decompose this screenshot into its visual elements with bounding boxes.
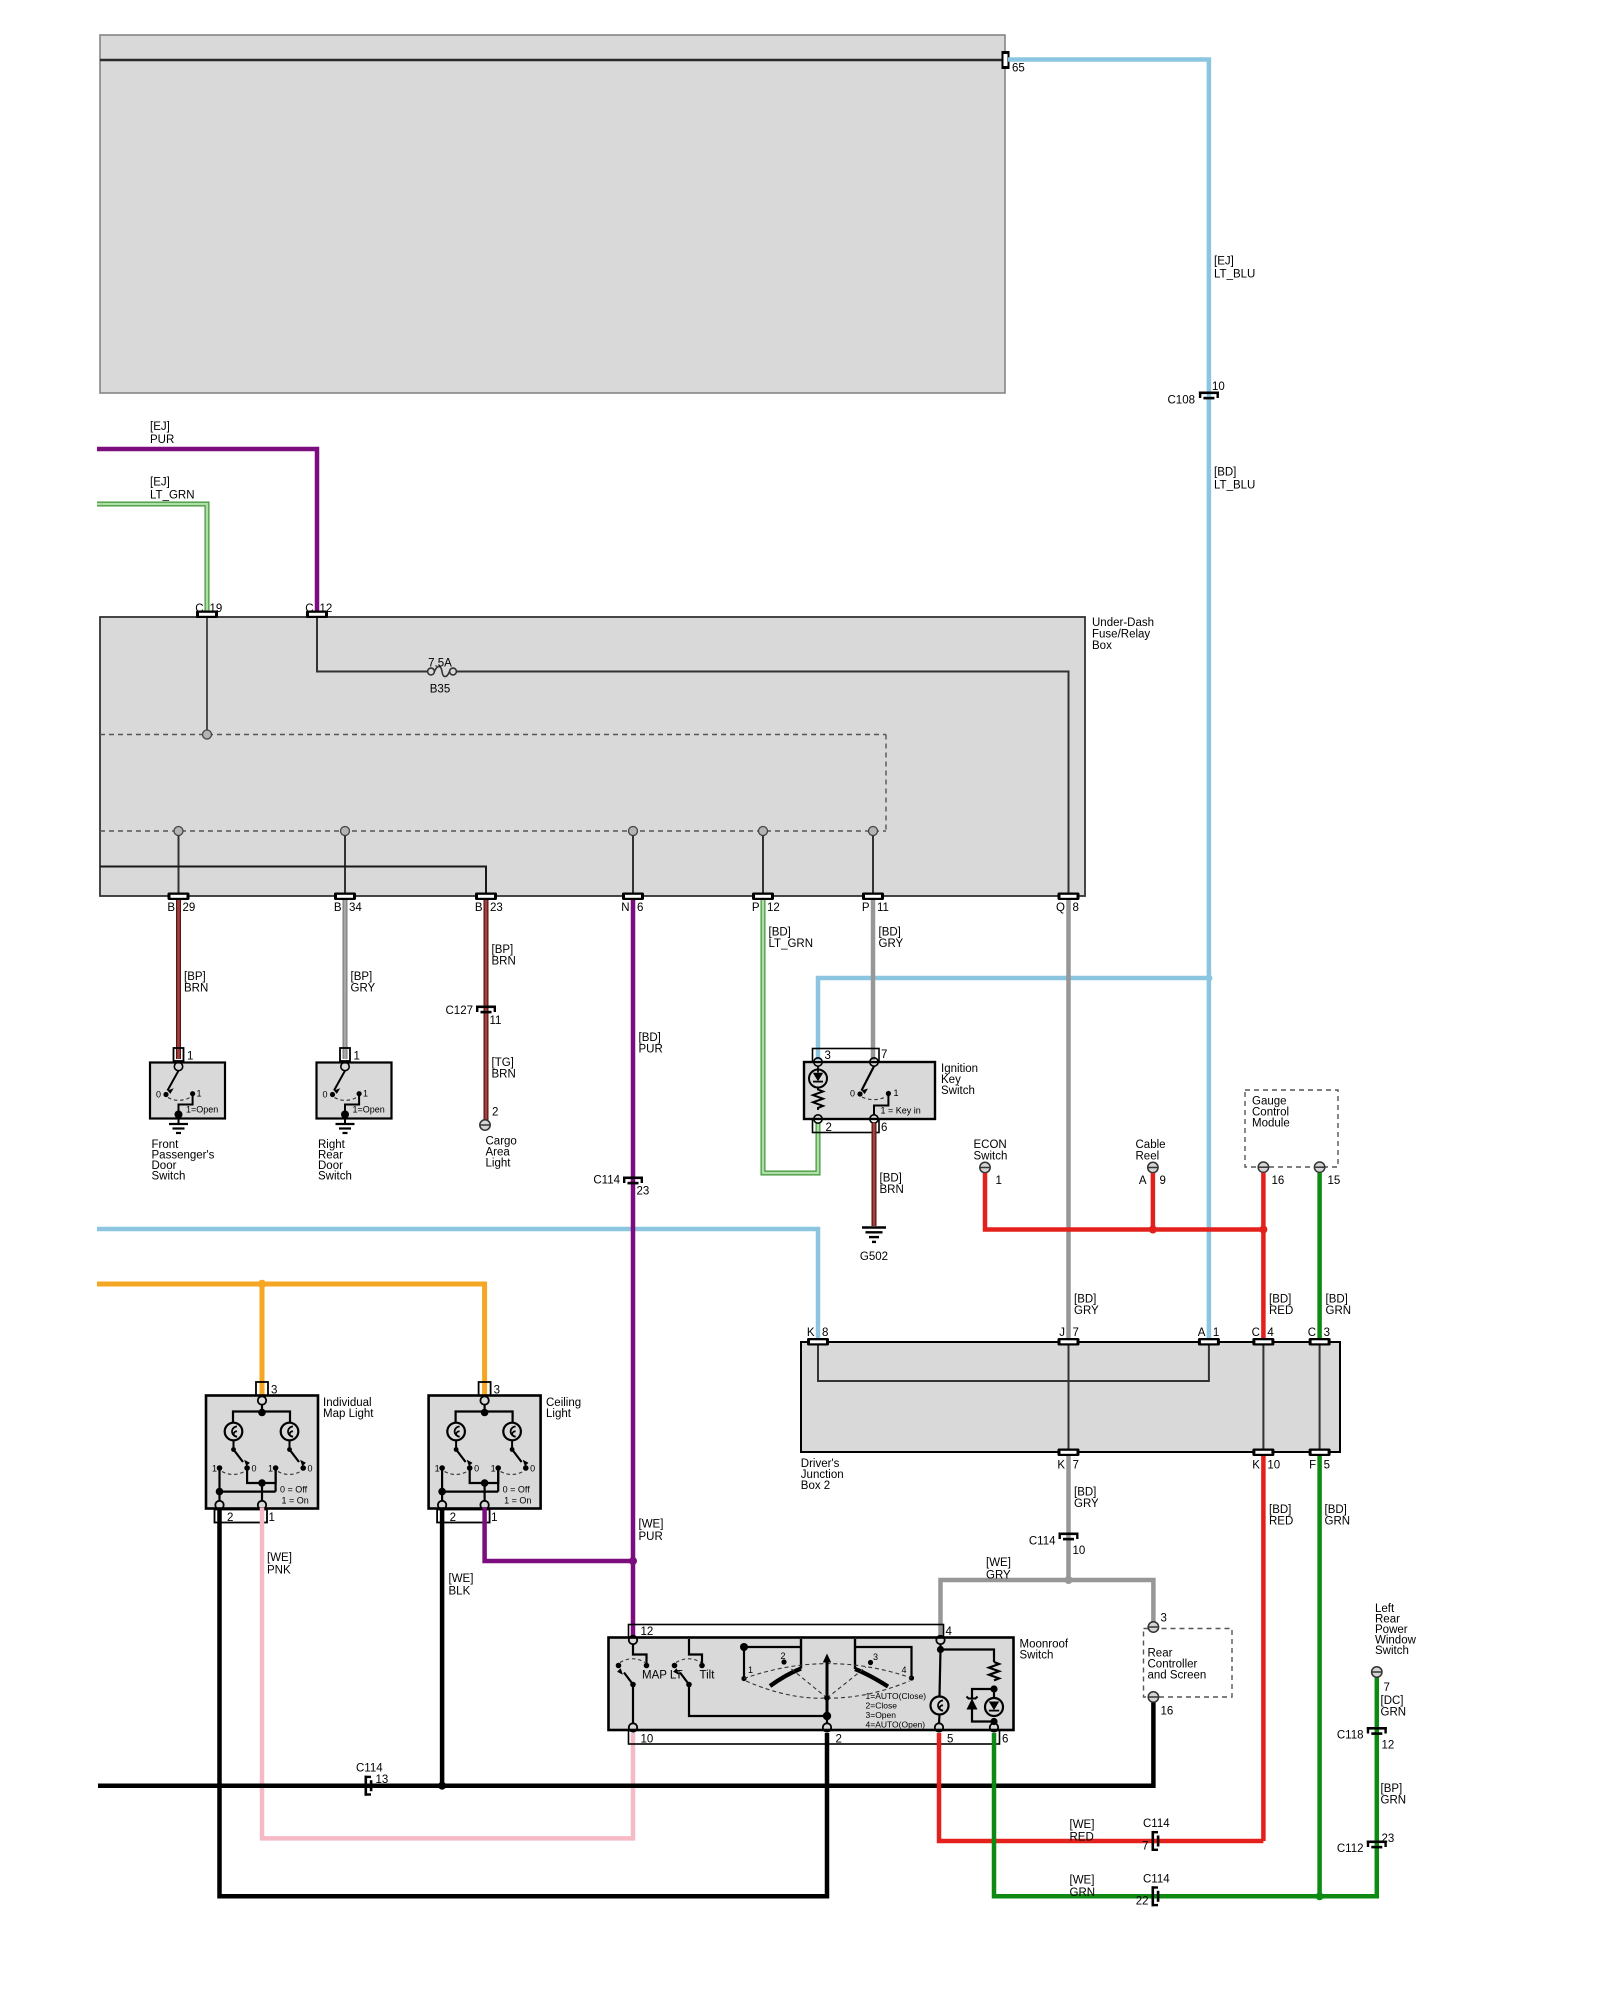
- svg-text:C114: C114: [356, 1763, 383, 1775]
- wire internal C3 to F5: [1319, 1345, 1321, 1449]
- connector C108 pin 10: [1199, 392, 1219, 400]
- svg-text:23: 23: [637, 1186, 650, 1198]
- terminal rear controller pin 3: [1148, 1622, 1158, 1632]
- svg-text:[BD]: [BD]: [1214, 467, 1236, 479]
- svg-text:[WE]: [WE]: [1070, 1819, 1095, 1831]
- svg-text:7: 7: [1073, 1460, 1079, 1472]
- node black junction (ceiling light): [438, 1782, 446, 1790]
- node on upper bus (C19): [203, 730, 212, 739]
- svg-text:0: 0: [322, 1090, 327, 1100]
- svg-text:C114: C114: [593, 1175, 620, 1187]
- svg-text:[WE]: [WE]: [639, 1519, 664, 1531]
- switch lever left: [454, 1447, 459, 1452]
- dashed internal bus lower: [100, 830, 886, 832]
- svg-text:1: 1: [269, 1512, 275, 1524]
- connector K 10 (bottom): [1252, 1449, 1274, 1457]
- svg-text:22: 22: [1136, 1896, 1149, 1908]
- node red junction at gauge lead: [1259, 1226, 1267, 1234]
- svg-text:7: 7: [1073, 1327, 1079, 1339]
- connector C114 pin 13: [365, 1776, 373, 1796]
- Gauge Control Module (dashed): [1245, 1090, 1338, 1167]
- svg-text:PUR: PUR: [639, 1044, 663, 1056]
- svg-text:[BD]: [BD]: [1325, 1504, 1347, 1516]
- wire ORN feed to lights: [97, 1284, 485, 1396]
- node purple junction: [629, 1557, 637, 1565]
- svg-text:Fuse/Relay: Fuse/Relay: [1092, 629, 1150, 641]
- svg-text:Light: Light: [486, 1158, 512, 1170]
- svg-text:10: 10: [1267, 1460, 1280, 1472]
- svg-text:1 = On: 1 = On: [282, 1496, 309, 1506]
- svg-text:Map Light: Map Light: [323, 1408, 374, 1420]
- svg-text:A: A: [1198, 1327, 1206, 1339]
- lower connections: [470, 1470, 499, 1483]
- svg-text:Under-Dash: Under-Dash: [1092, 617, 1154, 629]
- svg-text:3: 3: [271, 1385, 277, 1397]
- resistor inside ignition switch: [813, 1088, 823, 1110]
- connector C 4: [1252, 1338, 1274, 1346]
- connector C 3: [1309, 1338, 1331, 1346]
- bulb 2 of ceiling light: [503, 1423, 521, 1441]
- wire [WE] GRY distribution: [941, 1580, 1154, 1637]
- svg-text:Module: Module: [1252, 1118, 1290, 1130]
- svg-text:G502: G502: [860, 1251, 888, 1263]
- wire cable reel red lead: [1151, 1173, 1156, 1230]
- svg-text:K: K: [1252, 1460, 1260, 1472]
- Front Passenger's Door Switch: [150, 1048, 225, 1183]
- svg-text:1: 1: [1213, 1327, 1219, 1339]
- svg-text:3: 3: [1324, 1327, 1330, 1339]
- svg-text:[BD]: [BD]: [880, 1173, 902, 1185]
- selector arm: [826, 1662, 829, 1716]
- svg-text:1: 1: [894, 1088, 899, 1098]
- svg-text:2: 2: [227, 1512, 233, 1524]
- svg-text:P: P: [862, 902, 870, 914]
- svg-text:GRN: GRN: [1381, 1707, 1407, 1719]
- svg-text:1=Open: 1=Open: [186, 1105, 218, 1115]
- terminal gauge module pin 16: [1258, 1162, 1268, 1172]
- svg-text:K: K: [1057, 1460, 1065, 1472]
- wire LT_BLU lower (left edge to K8): [97, 1229, 818, 1342]
- wire [EJ] LT_GRN to C19: [97, 504, 207, 613]
- svg-text:GRN: GRN: [1326, 1305, 1352, 1317]
- svg-text:3: 3: [1161, 1613, 1167, 1625]
- svg-text:6: 6: [881, 1122, 887, 1134]
- connector C114 pin 7: [1152, 1831, 1160, 1851]
- svg-text:K: K: [807, 1327, 815, 1339]
- switch lever right: [510, 1447, 515, 1452]
- svg-text:B: B: [334, 902, 342, 914]
- wire ceiling light pin2 black to rear controller net: [440, 1508, 445, 1786]
- svg-text:23: 23: [490, 902, 503, 914]
- wire [BD] RED from ECON switch: [985, 1173, 1263, 1230]
- svg-text:65: 65: [1012, 63, 1025, 75]
- svg-text:1: 1: [748, 1665, 753, 1675]
- connector C 19: [196, 611, 218, 619]
- svg-text:3: 3: [825, 1050, 831, 1062]
- motor of moonroof switch: [937, 1646, 944, 1653]
- svg-text:2: 2: [450, 1512, 456, 1524]
- key switch lever: [862, 1066, 875, 1090]
- ground G502: [862, 1225, 874, 1227]
- svg-text:Switch: Switch: [1375, 1645, 1409, 1657]
- wire LT_BLU branch to ignition key switch pin 3: [818, 978, 1209, 1060]
- connector K 7 (bottom): [1058, 1449, 1080, 1457]
- wire internal K8 to A1: [818, 1345, 1209, 1381]
- svg-text:C127: C127: [446, 1005, 474, 1017]
- svg-text:8: 8: [822, 1327, 828, 1339]
- wire: C12 internal lead to fuse: [317, 618, 428, 672]
- LED (key-in illumination): [809, 1070, 827, 1088]
- node green junction (F5): [1316, 1892, 1324, 1900]
- wire black: rear controller pin16 ground net: [98, 1703, 1153, 1786]
- wire [EJ] PUR to C12: [97, 449, 317, 613]
- connector C 12: [306, 611, 328, 619]
- svg-text:[EJ]: [EJ]: [150, 477, 170, 489]
- dashed internal bus vertical: [885, 735, 887, 832]
- wire ORN branch to map light: [260, 1284, 265, 1396]
- wire [EJ]/[BD] LT_BLU from pin 65 down to A1: [1008, 60, 1209, 1343]
- svg-text:and Screen: and Screen: [1148, 1670, 1207, 1682]
- Ceiling Light: [429, 1382, 582, 1524]
- wire internal J7 to K7: [1068, 1345, 1070, 1449]
- svg-text:0 = Off: 0 = Off: [280, 1485, 308, 1495]
- svg-text:0 = Off: 0 = Off: [503, 1485, 531, 1495]
- svg-text:B: B: [167, 902, 175, 914]
- wire ignition pin 6 [BD] BRN to G502: [872, 1123, 877, 1226]
- svg-text:RED: RED: [1269, 1516, 1293, 1528]
- illumination branch: resistor: [941, 1650, 995, 1663]
- Individual Map Light: [206, 1382, 374, 1524]
- svg-text:Switch: Switch: [1020, 1650, 1054, 1662]
- svg-text:Box 2: Box 2: [801, 1480, 830, 1492]
- svg-text:3: 3: [873, 1652, 878, 1662]
- svg-text:[BD]: [BD]: [1269, 1504, 1291, 1516]
- svg-text:F: F: [1309, 1460, 1316, 1472]
- svg-text:BRN: BRN: [880, 1184, 904, 1196]
- svg-text:C: C: [1308, 1327, 1316, 1339]
- wire P12 [BD] LT_GRN to ignition pin 2: [763, 900, 818, 1173]
- Tilt switch: [689, 1639, 702, 1663]
- switch lever right: [287, 1447, 292, 1452]
- svg-text:29: 29: [183, 902, 196, 914]
- svg-text:4=AUTO(Open): 4=AUTO(Open): [866, 1720, 926, 1730]
- svg-text:4: 4: [946, 1626, 953, 1638]
- svg-text:P: P: [752, 902, 760, 914]
- wire: fuse output to Q8: [456, 672, 1068, 894]
- svg-text:7.5A: 7.5A: [428, 658, 452, 670]
- svg-text:11: 11: [877, 902, 889, 914]
- wire: node to P12: [762, 836, 764, 894]
- svg-text:[BD]: [BD]: [1074, 1294, 1096, 1306]
- svg-text:B: B: [475, 902, 483, 914]
- node: LT_BLU tee to ignition key switch: [1205, 975, 1212, 982]
- svg-text:C: C: [305, 603, 313, 615]
- wire F5 [BD] GRN down: [1317, 1456, 1322, 1896]
- svg-text:0: 0: [252, 1464, 257, 1474]
- svg-text:GRY: GRY: [986, 1570, 1011, 1582]
- svg-text:GRY: GRY: [879, 938, 904, 950]
- svg-text:2=Close: 2=Close: [866, 1701, 898, 1711]
- svg-text:A: A: [1139, 1175, 1147, 1187]
- node P12: [759, 827, 768, 836]
- wire: C19 internal lead: [206, 618, 208, 731]
- svg-text:5: 5: [947, 1734, 953, 1746]
- svg-text:0: 0: [308, 1464, 313, 1474]
- svg-text:Switch: Switch: [974, 1151, 1008, 1163]
- svg-text:Switch: Switch: [318, 1171, 352, 1183]
- svg-text:1: 1: [197, 1089, 202, 1099]
- svg-text:BLK: BLK: [449, 1586, 471, 1598]
- svg-text:C112: C112: [1337, 1843, 1364, 1855]
- svg-text:[WE]: [WE]: [267, 1552, 292, 1564]
- zener diode: [972, 1689, 994, 1698]
- svg-text:3: 3: [494, 1385, 500, 1397]
- svg-text:[BP]: [BP]: [184, 971, 206, 983]
- terminal: Cargo Area Light pin 2: [480, 1120, 490, 1130]
- svg-text:PNK: PNK: [267, 1565, 291, 1577]
- svg-text:C114: C114: [1143, 1818, 1170, 1830]
- svg-text:6: 6: [1002, 1734, 1008, 1746]
- fuse B35 7.5A: [428, 668, 435, 675]
- svg-text:Box: Box: [1092, 640, 1112, 652]
- terminal ECON switch pin 1: [980, 1162, 990, 1172]
- wire B29 [BP] BRN: [176, 900, 181, 1059]
- wire gauge pin16 [BD] RED down to C4: [1261, 1173, 1266, 1342]
- lower connections: [247, 1470, 276, 1483]
- svg-text:12: 12: [1382, 1740, 1395, 1752]
- connector C114 pin 10: [1059, 1533, 1079, 1541]
- svg-text:1: 1: [212, 1464, 217, 1474]
- svg-text:[BD]: [BD]: [879, 927, 901, 939]
- svg-text:3=Open: 3=Open: [866, 1710, 897, 1720]
- wire: internal bus line of upper module: [100, 59, 1005, 62]
- wire: node to P11: [872, 836, 874, 894]
- svg-text:J: J: [1059, 1327, 1065, 1339]
- svg-text:GRN: GRN: [1070, 1887, 1096, 1899]
- wire: node to B29: [178, 836, 180, 894]
- svg-text:[EJ]: [EJ]: [1214, 256, 1234, 268]
- LED indicator: [993, 1689, 995, 1698]
- svg-text:10: 10: [641, 1734, 654, 1746]
- Ignition Key Switch: [804, 1049, 978, 1135]
- svg-text:N: N: [621, 902, 629, 914]
- svg-text:1: 1: [354, 1051, 360, 1063]
- connector B 29: [168, 893, 190, 901]
- svg-text:GRN: GRN: [1381, 1795, 1407, 1807]
- svg-text:2: 2: [492, 1107, 498, 1119]
- svg-text:C108: C108: [1168, 395, 1196, 407]
- svg-text:11: 11: [490, 1015, 502, 1027]
- node red junction at cable reel: [1149, 1226, 1157, 1234]
- node B34: [341, 827, 350, 836]
- terminal cable reel A 9: [1148, 1162, 1158, 1172]
- wire [WE] PNK map light pin1 to moonroof pin10: [262, 1508, 633, 1839]
- bulb 1 of ceiling light: [447, 1423, 465, 1441]
- wire N6 [BD] PUR down to moonroof pin 12: [631, 900, 636, 1637]
- wire: node to N6: [632, 836, 634, 894]
- wire gauge pin15 [BD] GRN down to C3: [1317, 1173, 1322, 1342]
- connector P 12: [752, 893, 774, 901]
- svg-text:1 = On: 1 = On: [504, 1496, 531, 1506]
- svg-text:2: 2: [781, 1651, 786, 1661]
- svg-text:6: 6: [637, 902, 643, 914]
- svg-text:[BD]: [BD]: [1326, 1294, 1348, 1306]
- svg-text:0: 0: [156, 1090, 161, 1100]
- connector C118 pin 12: [1367, 1727, 1387, 1735]
- Rear Controller and Screen (dashed): [1144, 1629, 1233, 1698]
- svg-text:1: 1: [435, 1464, 440, 1474]
- svg-text:1: 1: [268, 1464, 273, 1474]
- wire [WE] GRN moonroof pin6 to window switch: [994, 1677, 1377, 1896]
- svg-text:10: 10: [1073, 1545, 1086, 1557]
- connector P 11: [862, 893, 884, 901]
- terminal rear controller pin 16: [1148, 1692, 1158, 1702]
- svg-text:19: 19: [210, 603, 223, 615]
- svg-text:23: 23: [1382, 1833, 1395, 1845]
- svg-text:34: 34: [349, 902, 362, 914]
- bulb 2 of map light: [281, 1423, 299, 1441]
- svg-text:12: 12: [641, 1626, 654, 1638]
- wire [WE] RED moonroof pin5 to K10 red: [939, 1733, 1263, 1841]
- svg-text:[BD]: [BD]: [769, 927, 791, 939]
- svg-text:BRN: BRN: [184, 983, 208, 995]
- svg-text:8: 8: [1073, 902, 1079, 914]
- rotary selector of moonroof switch: [740, 1643, 748, 1651]
- MAP LT switch: [633, 1644, 647, 1663]
- wire Q8 [BD] GRY to J7: [1066, 900, 1071, 1342]
- svg-text:GRN: GRN: [1325, 1516, 1351, 1528]
- terminal window switch pin 7: [1372, 1667, 1382, 1677]
- connector J 7: [1058, 1338, 1080, 1346]
- svg-text:0: 0: [530, 1464, 535, 1474]
- Driver's Junction Box 2: [801, 1342, 1340, 1452]
- svg-text:[BD]: [BD]: [1269, 1294, 1291, 1306]
- svg-text:[BP]: [BP]: [492, 944, 514, 956]
- connector N 6: [622, 893, 644, 901]
- node N6: [629, 827, 638, 836]
- Right Rear Door Switch: [317, 1048, 392, 1183]
- node orange junction: [258, 1280, 266, 1288]
- svg-text:Cable: Cable: [1136, 1139, 1166, 1151]
- wire: internal lead to B23: [100, 867, 486, 894]
- svg-text:7: 7: [1384, 1682, 1390, 1694]
- svg-text:4: 4: [1267, 1327, 1274, 1339]
- svg-text:12: 12: [320, 603, 333, 615]
- node B29: [174, 827, 183, 836]
- svg-text:LT_BLU: LT_BLU: [1214, 480, 1255, 492]
- svg-text:4: 4: [902, 1665, 907, 1675]
- svg-text:1: 1: [491, 1464, 496, 1474]
- svg-text:C: C: [1252, 1327, 1260, 1339]
- svg-text:BRN: BRN: [492, 1069, 516, 1081]
- svg-text:Reel: Reel: [1136, 1151, 1160, 1163]
- node gray junction: [1065, 1576, 1073, 1584]
- switch lever left: [231, 1447, 236, 1452]
- svg-text:16: 16: [1161, 1706, 1174, 1718]
- svg-text:Q: Q: [1056, 902, 1065, 914]
- svg-text:[WE]: [WE]: [449, 1573, 474, 1585]
- svg-text:1: 1: [187, 1051, 193, 1063]
- svg-text:Switch: Switch: [152, 1171, 186, 1183]
- svg-text:Light: Light: [546, 1408, 572, 1420]
- svg-text:2: 2: [826, 1122, 832, 1134]
- svg-text:ECON: ECON: [974, 1139, 1007, 1151]
- dashed internal bus upper: [100, 734, 886, 736]
- svg-text:PUR: PUR: [639, 1531, 663, 1543]
- svg-text:[BP]: [BP]: [1381, 1783, 1403, 1795]
- svg-text:RED: RED: [1269, 1305, 1293, 1317]
- svg-text:1=Open: 1=Open: [353, 1105, 385, 1115]
- wire B23 [BP] BRN / [TG] BRN: [484, 900, 489, 1120]
- svg-text:C118: C118: [1337, 1730, 1364, 1742]
- svg-text:LT_GRN: LT_GRN: [150, 490, 195, 502]
- svg-text:GRY: GRY: [1074, 1498, 1099, 1510]
- Moonroof Switch: [609, 1625, 1069, 1746]
- upper control module box: [100, 35, 1005, 393]
- connector K 8: [807, 1338, 829, 1346]
- connector C112 pin 23: [1367, 1841, 1387, 1849]
- ground of front passenger's door switch: [178, 1115, 180, 1125]
- svg-text:1=AUTO(Close): 1=AUTO(Close): [866, 1691, 927, 1701]
- svg-text:Switch: Switch: [941, 1085, 975, 1097]
- svg-text:[BP]: [BP]: [351, 971, 373, 983]
- svg-text:PUR: PUR: [150, 434, 174, 446]
- svg-text:B35: B35: [430, 684, 450, 696]
- svg-text:7: 7: [1142, 1841, 1148, 1853]
- connector C114 pin 23: [623, 1177, 643, 1185]
- svg-text:C: C: [195, 603, 203, 615]
- svg-text:9: 9: [1160, 1175, 1166, 1187]
- svg-text:[WE]: [WE]: [986, 1557, 1011, 1569]
- connector C114 pin 22: [1152, 1886, 1160, 1906]
- svg-text:Tilt: Tilt: [700, 1670, 716, 1682]
- wire K7 [BD] GRY down: [1066, 1456, 1071, 1580]
- svg-text:7: 7: [881, 1049, 887, 1061]
- wire K10 [BD] RED down: [1261, 1456, 1266, 1841]
- svg-text:[WE]: [WE]: [1070, 1875, 1095, 1887]
- svg-text:1: 1: [491, 1512, 497, 1524]
- svg-text:1: 1: [996, 1175, 1002, 1187]
- Under-Dash Fuse/Relay Box: [100, 617, 1085, 896]
- svg-text:15: 15: [1328, 1175, 1341, 1187]
- svg-text:0: 0: [474, 1464, 479, 1474]
- connector B 23: [475, 893, 497, 901]
- svg-text:16: 16: [1272, 1175, 1285, 1187]
- svg-text:LT_GRN: LT_GRN: [769, 938, 814, 950]
- connector B 34: [334, 893, 356, 901]
- svg-text:[TG]: [TG]: [492, 1057, 514, 1069]
- wire [WE] BLK map light pin2 to moonroof pin2: [220, 1508, 828, 1897]
- svg-text:LT_BLU: LT_BLU: [1214, 269, 1255, 281]
- svg-text:[DC]: [DC]: [1381, 1695, 1404, 1707]
- svg-text:GRY: GRY: [1074, 1305, 1099, 1317]
- svg-text:BRN: BRN: [492, 956, 516, 968]
- connector C127 pin 11: [476, 1006, 496, 1014]
- wire internal C4 to K10: [1262, 1345, 1264, 1449]
- svg-text:2: 2: [836, 1734, 842, 1746]
- svg-text:[EJ]: [EJ]: [150, 421, 170, 433]
- svg-text:10: 10: [1212, 381, 1225, 393]
- terminal gauge module pin 15: [1314, 1162, 1324, 1172]
- svg-text:[BD]: [BD]: [639, 1032, 661, 1044]
- connector Q 8: [1058, 893, 1080, 901]
- bulb 1 of map light: [225, 1423, 243, 1441]
- svg-text:5: 5: [1324, 1460, 1330, 1472]
- svg-text:13: 13: [376, 1774, 389, 1786]
- svg-text:0: 0: [850, 1089, 855, 1099]
- ground of right rear door switch: [344, 1115, 346, 1125]
- svg-text:12: 12: [767, 902, 780, 914]
